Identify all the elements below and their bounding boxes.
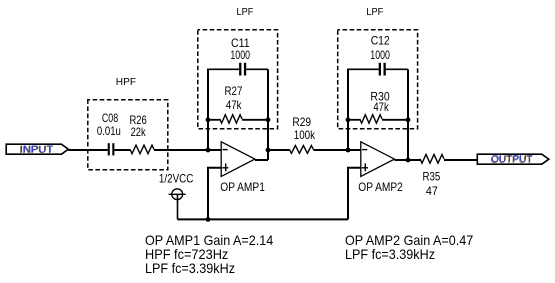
capacitor C11 — [239, 63, 246, 76]
svg-text:1/2VCC: 1/2VCC — [159, 172, 194, 186]
svg-text:INPUT: INPUT — [20, 144, 54, 155]
resistor R30 — [348, 115, 408, 123]
svg-text:R35: R35 — [423, 170, 441, 184]
wire 1/2VCC rail — [178, 218, 349, 220]
op-amp U2 OP AMP2 — [361, 142, 395, 177]
svg-text:LPF fc=3.39kHz: LPF fc=3.39kHz — [145, 260, 235, 276]
svg-text:C08: C08 — [102, 111, 119, 125]
svg-text:R29: R29 — [292, 115, 311, 129]
LPF2 dashed box — [338, 30, 418, 129]
svg-text:LPF: LPF — [366, 6, 383, 18]
net flag INPUT — [6, 144, 68, 155]
LPF1 dashed box — [198, 30, 278, 129]
HPF dashed box — [88, 100, 168, 170]
node A junction main/feedback1 — [206, 148, 211, 153]
svg-text:0.01u: 0.01u — [97, 124, 121, 138]
capacitor C12 — [379, 63, 386, 76]
wire feedback2 right vertical — [407, 69, 409, 160]
wire op1 output to feedback node — [255, 159, 268, 161]
wire C12 top right lead — [386, 68, 408, 70]
wire R29 to op-amp U2 inverting input — [313, 149, 360, 151]
power symbol 1/2VCC — [169, 189, 186, 220]
svg-text:HPF: HPF — [116, 76, 136, 88]
wire op1 noninverting input to rail — [208, 168, 221, 220]
wire feedback1 right vertical — [267, 69, 269, 160]
svg-text:LPF fc=3.39kHz: LPF fc=3.39kHz — [345, 246, 435, 262]
node C junction R29/feedback2 — [346, 148, 351, 153]
svg-text:100k: 100k — [294, 128, 316, 142]
capacitor C08 — [108, 143, 115, 155]
wire rail to op2 noninverting input — [348, 168, 361, 220]
svg-text:47: 47 — [426, 184, 438, 198]
node junction R30 left — [346, 117, 351, 122]
wire op2 output to R35 — [395, 159, 421, 161]
wire C08 to R26 — [114, 149, 130, 151]
wire R35 to OUTPUT — [444, 159, 477, 161]
resistor R29 — [289, 146, 313, 154]
wire feedback node to R29 — [268, 149, 289, 151]
op-amp U1 OP AMP1 — [221, 142, 255, 177]
net flag OUTPUT — [477, 154, 549, 165]
svg-text:C12: C12 — [371, 33, 390, 47]
svg-text:47k: 47k — [373, 100, 389, 114]
node junction R30 right — [406, 117, 411, 122]
svg-text:OUTPUT: OUTPUT — [491, 154, 533, 165]
wire INPUT to C08 — [68, 149, 107, 151]
wire C11 top right lead — [246, 68, 268, 70]
node junction rail op1+ — [206, 217, 211, 222]
node D junction op2 output — [406, 158, 411, 163]
wire R26 to op-amp U1 inverting input — [154, 149, 221, 151]
wire feedback1 left vertical — [207, 69, 209, 150]
svg-text:OP AMP1: OP AMP1 — [220, 180, 265, 194]
svg-text:R27: R27 — [225, 84, 243, 98]
node junction R27 left — [206, 117, 211, 122]
svg-text:47k: 47k — [226, 98, 242, 112]
resistor R35 — [420, 154, 444, 163]
svg-text:22k: 22k — [131, 125, 147, 139]
svg-text:OP AMP2: OP AMP2 — [358, 180, 403, 194]
wire C11 top left lead — [207, 68, 239, 70]
svg-text:LPF: LPF — [237, 6, 254, 18]
node B junction op1 output feedback — [266, 148, 271, 153]
svg-text:1000: 1000 — [370, 48, 390, 62]
node junction R27 right — [266, 117, 271, 122]
resistor R26 — [130, 145, 154, 154]
resistor R27 — [208, 115, 268, 123]
wire feedback2 left vertical — [347, 69, 349, 150]
svg-text:1000: 1000 — [230, 48, 250, 62]
wire C12 top left lead — [347, 68, 379, 70]
